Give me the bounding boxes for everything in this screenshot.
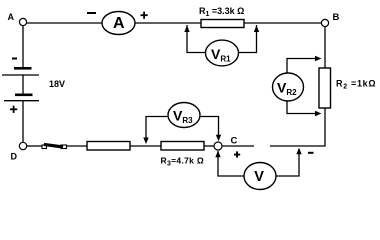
voltmeter VR3 — [168, 103, 200, 128]
node D — [11, 142, 27, 161]
resistor box (left, bottom) — [87, 142, 130, 151]
wire bottom: switch to resistor box — [66, 145, 87, 147]
wire top: ammeter to R1 — [135, 22, 201, 24]
voltmeter VR2 leads — [287, 56, 322, 116]
voltmeter V — [244, 163, 276, 190]
ammeter polarity + — [141, 12, 148, 19]
node A — [8, 12, 27, 26]
voltmeter V polarity - — [308, 152, 314, 154]
resistor R1 — [201, 20, 244, 28]
svg-text:B: B — [333, 12, 340, 23]
wire right: node B to R2 — [324, 27, 326, 69]
voltmeter VR2 — [273, 73, 304, 101]
voltmeter VR1 leads — [184, 25, 259, 53]
svg-text:C: C — [231, 136, 238, 147]
svg-text:D: D — [11, 152, 18, 162]
wire top: R1 to node B — [244, 22, 322, 24]
switch S — [42, 144, 67, 148]
voltmeter V leads — [215, 148, 301, 176]
wire top: node A to ammeter — [27, 22, 103, 24]
svg-text:V: V — [254, 169, 264, 185]
battery 18V — [2, 67, 39, 101]
ammeter polarity - — [87, 12, 96, 14]
wire left: node A to battery — [22, 26, 24, 68]
wire right: R2 to bottom-right corner — [270, 108, 325, 146]
wire left: battery to node D — [22, 101, 24, 143]
ammeter A — [102, 12, 135, 35]
node B — [321, 12, 339, 26]
voltmeter VR1 — [206, 40, 239, 66]
node C — [214, 136, 238, 151]
battery polarity + — [10, 106, 17, 113]
wire bottom: node C to gap — [222, 145, 254, 147]
svg-text:A: A — [8, 12, 15, 22]
battery polarity - — [12, 58, 17, 60]
resistor R2 — [319, 68, 331, 108]
wire bottom: box to R3 — [130, 145, 161, 147]
wire bottom: R3 to node C — [204, 145, 215, 147]
svg-text:A: A — [113, 15, 125, 32]
voltmeter V polarity + — [234, 151, 240, 157]
resistor R3 — [161, 142, 204, 151]
wire bottom: node D to switch — [27, 145, 43, 147]
voltmeter VR3 leads — [143, 117, 221, 145]
svg-text:18V: 18V — [49, 79, 65, 89]
